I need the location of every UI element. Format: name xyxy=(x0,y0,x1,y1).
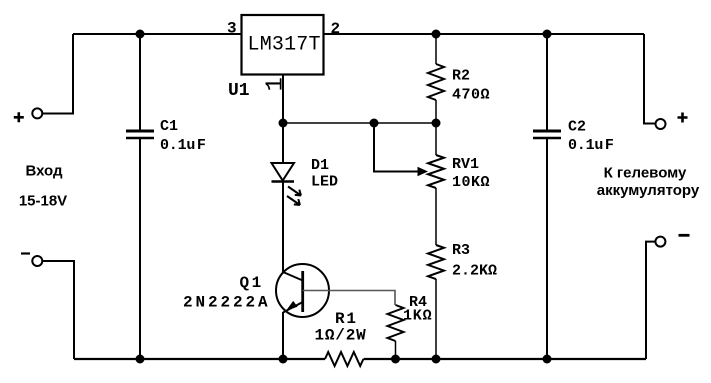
wire base to R4 xyxy=(303,291,395,306)
terminal input plus xyxy=(32,108,42,118)
svg-text:2: 2 xyxy=(331,20,341,38)
minus sign output xyxy=(679,234,690,237)
plus sign output xyxy=(678,113,688,123)
diode D1 LED xyxy=(272,163,295,181)
wire top rail left xyxy=(73,33,242,35)
svg-text:0.1uF: 0.1uF xyxy=(160,137,206,154)
capacitor C1 xyxy=(139,34,141,130)
svg-text:1Ω/2W: 1Ω/2W xyxy=(315,327,367,345)
wire pin1 down xyxy=(282,75,284,163)
wire input minus xyxy=(43,261,75,359)
svg-text:R2: R2 xyxy=(452,68,470,85)
wire bottom rail right xyxy=(364,358,647,360)
svg-text:R3: R3 xyxy=(452,242,470,259)
wiper arrow RV1 xyxy=(374,123,419,172)
resistor R3 xyxy=(428,245,444,279)
node dot pin1 mid xyxy=(279,119,288,128)
node dot RV1 top xyxy=(432,119,441,128)
node dot C2 top xyxy=(543,30,552,39)
wire input plus vertical xyxy=(43,34,74,114)
node dot wiper xyxy=(370,119,379,128)
node dot R3 bottom xyxy=(432,355,441,364)
wire output plus xyxy=(644,34,655,124)
capacitor C2 xyxy=(546,34,548,130)
svg-text:10KΩ: 10KΩ xyxy=(452,174,490,191)
node dot C1 top xyxy=(136,30,145,39)
node dot C2 bottom xyxy=(543,355,552,364)
svg-text:2N2222A: 2N2222A xyxy=(183,294,271,312)
wire emitter to bottom xyxy=(282,312,284,359)
minus dash input xyxy=(21,252,30,254)
svg-text:D1: D1 xyxy=(311,157,329,174)
svg-text:LED: LED xyxy=(311,174,338,191)
wire bottom rail left xyxy=(74,358,325,360)
plus sign input xyxy=(14,112,24,122)
resistor R4 xyxy=(388,305,404,341)
node dot emitter bottom xyxy=(279,355,288,364)
svg-text:Q1: Q1 xyxy=(240,274,264,292)
svg-text:Вход: Вход xyxy=(25,163,63,180)
transistor Q1 xyxy=(276,264,329,317)
wire LED to Q1 xyxy=(282,182,284,273)
terminal output minus xyxy=(655,237,665,247)
resistor R2 xyxy=(435,34,437,64)
svg-text:0.1uF: 0.1uF xyxy=(568,137,614,154)
svg-text:C2: C2 xyxy=(568,119,586,136)
svg-text:LM317T: LM317T xyxy=(248,34,321,57)
svg-text:К гелевому: К гелевому xyxy=(604,165,687,182)
op-amp U1 LM317T box xyxy=(242,15,324,75)
svg-text:RV1: RV1 xyxy=(452,156,479,173)
pin 1 label rotated xyxy=(263,77,290,91)
svg-text:аккумулятору: аккумулятору xyxy=(597,182,700,199)
node dot C1 bottom xyxy=(136,355,145,364)
terminal output plus xyxy=(656,119,666,129)
node dot R4 bottom xyxy=(391,355,400,364)
svg-text:15-18V: 15-18V xyxy=(19,193,67,210)
svg-text:2.2KΩ: 2.2KΩ xyxy=(452,263,497,280)
potentiometer RV1 xyxy=(435,123,437,155)
wire top rail right xyxy=(325,33,645,35)
svg-text:R1: R1 xyxy=(335,310,358,328)
svg-text:470Ω: 470Ω xyxy=(452,87,490,104)
wire mid horizontal xyxy=(283,122,436,124)
svg-text:U1: U1 xyxy=(228,81,250,101)
node dot R2 top xyxy=(432,30,441,39)
terminal input minus xyxy=(32,256,42,266)
resistor R1 xyxy=(325,352,363,366)
svg-text:1KΩ: 1KΩ xyxy=(403,308,432,325)
svg-text:C1: C1 xyxy=(160,118,178,135)
wire output minus xyxy=(646,242,655,359)
svg-text:1: 1 xyxy=(263,77,290,91)
svg-text:3: 3 xyxy=(227,20,237,38)
